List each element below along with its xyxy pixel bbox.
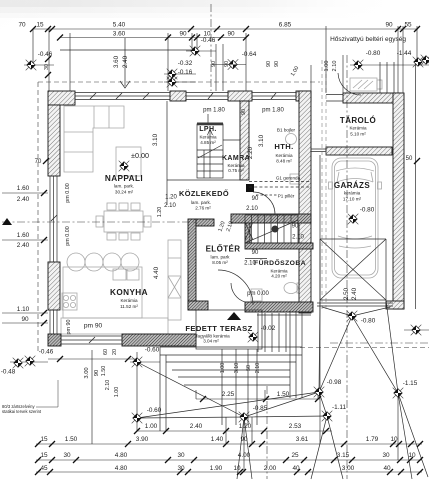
svg-text:G1 gerenda: G1 gerenda — [276, 176, 301, 181]
svg-text:8.05 m²: 8.05 m² — [212, 260, 228, 265]
svg-text:HTH.: HTH. — [274, 142, 293, 151]
svg-text:2.40: 2.40 — [190, 423, 203, 430]
svg-text:GARÁZS: GARÁZS — [334, 181, 370, 190]
svg-text:TÁROLÓ: TÁROLÓ — [340, 116, 376, 125]
svg-text:2.40: 2.40 — [17, 242, 30, 249]
svg-text:40: 40 — [292, 465, 300, 472]
svg-text:2.10: 2.10 — [105, 380, 111, 391]
svg-text:4.20 m²: 4.20 m² — [271, 274, 287, 279]
svg-text:1.90: 1.90 — [210, 465, 223, 472]
svg-text:-0.46: -0.46 — [201, 37, 216, 44]
svg-text:FEDETT TERASZ: FEDETT TERASZ — [185, 324, 252, 333]
svg-text:2.10: 2.10 — [292, 235, 304, 241]
svg-text:3.00: 3.00 — [342, 465, 355, 472]
svg-text:6.85: 6.85 — [279, 22, 292, 29]
svg-text:15: 15 — [36, 22, 44, 29]
svg-text:Kerámia: Kerámia — [120, 298, 138, 303]
svg-text:25: 25 — [291, 452, 299, 459]
svg-text:1.00: 1.00 — [220, 363, 226, 374]
svg-text:-0.02: -0.02 — [261, 325, 276, 332]
svg-text:90: 90 — [241, 109, 247, 115]
svg-text:2.00: 2.00 — [264, 465, 277, 472]
svg-text:90: 90 — [240, 436, 248, 443]
svg-text:70: 70 — [35, 159, 42, 165]
svg-text:4.85 m²: 4.85 m² — [200, 140, 216, 145]
svg-text:-0.64: -0.64 — [242, 51, 257, 58]
svg-text:1.50: 1.50 — [277, 391, 290, 398]
svg-text:2.76 m²: 2.76 m² — [195, 206, 211, 211]
svg-text:kerámia: kerámia — [344, 191, 361, 196]
svg-text:-0.60: -0.60 — [145, 347, 160, 354]
svg-text:pm 0.00: pm 0.00 — [247, 291, 269, 297]
svg-text:55: 55 — [404, 22, 412, 29]
svg-text:-0.60: -0.60 — [147, 407, 162, 414]
svg-text:10: 10 — [390, 436, 398, 443]
svg-text:3.04 m²: 3.04 m² — [203, 339, 219, 344]
svg-text:B1 bojler: B1 bojler — [277, 128, 296, 133]
svg-text:-1.11: -1.11 — [332, 404, 347, 411]
svg-text:90: 90 — [211, 61, 217, 67]
svg-text:2.10: 2.10 — [164, 203, 176, 209]
svg-text:1.20: 1.20 — [239, 423, 252, 430]
svg-text:1.20: 1.20 — [165, 195, 177, 201]
svg-text:pm 90: pm 90 — [84, 323, 103, 330]
svg-text:statikai tervek szerint: statikai tervek szerint — [2, 409, 42, 414]
svg-text:90: 90 — [266, 61, 272, 67]
svg-text:-0.98: -0.98 — [327, 379, 342, 386]
svg-text:1.00: 1.00 — [114, 387, 120, 398]
svg-text:Kerámia: Kerámia — [349, 126, 367, 131]
svg-text:2.50: 2.50 — [343, 287, 350, 300]
svg-text:pm 0.00: pm 0.00 — [65, 226, 71, 245]
svg-text:pm 1.80: pm 1.80 — [262, 108, 284, 114]
svg-text:17.10 m²: 17.10 m² — [343, 197, 362, 202]
svg-text:-0.80: -0.80 — [361, 318, 376, 325]
svg-text:1.20: 1.20 — [157, 207, 163, 218]
svg-text:3.10: 3.10 — [152, 133, 159, 146]
svg-text:11.52 m²: 11.52 m² — [120, 304, 138, 309]
svg-text:3.60: 3.60 — [113, 31, 126, 38]
svg-text:3.61: 3.61 — [296, 436, 309, 443]
svg-text:4.80: 4.80 — [115, 452, 128, 459]
svg-text:lam. park: lam. park — [211, 255, 231, 260]
svg-text:NAPPALI: NAPPALI — [105, 174, 143, 183]
svg-text:FÜRDŐSZOBA: FÜRDŐSZOBA — [254, 258, 306, 267]
svg-text:1.00: 1.00 — [145, 423, 158, 430]
svg-text:15: 15 — [40, 452, 48, 459]
svg-text:Kerámia: Kerámia — [275, 153, 293, 158]
svg-text:10: 10 — [233, 465, 241, 472]
svg-text:-0.46: -0.46 — [38, 51, 53, 58]
svg-text:40: 40 — [383, 465, 391, 472]
svg-text:±0.00: ±0.00 — [131, 151, 149, 160]
svg-text:1.50: 1.50 — [65, 436, 78, 443]
svg-text:pm 90: pm 90 — [66, 320, 72, 335]
svg-text:lam. park.: lam. park. — [114, 184, 134, 189]
svg-text:5.40: 5.40 — [113, 22, 126, 29]
svg-text:2.10: 2.10 — [332, 61, 338, 72]
svg-text:30: 30 — [177, 452, 185, 459]
svg-text:90: 90 — [252, 250, 259, 256]
svg-text:pm 1.80: pm 1.80 — [203, 108, 225, 114]
svg-text:Kerámia: Kerámia — [199, 135, 217, 140]
svg-text:2.20: 2.20 — [247, 146, 254, 159]
svg-text:1.60: 1.60 — [17, 185, 30, 192]
svg-text:1.40: 1.40 — [211, 436, 224, 443]
svg-text:50: 50 — [406, 156, 413, 162]
svg-text:4.00: 4.00 — [238, 452, 251, 459]
svg-text:90: 90 — [227, 31, 235, 38]
svg-text:90: 90 — [292, 224, 299, 230]
svg-text:pm 0.00: pm 0.00 — [65, 183, 71, 202]
svg-text:2.10: 2.10 — [244, 261, 256, 267]
svg-text:2.25: 2.25 — [222, 391, 235, 398]
svg-text:P1 pillér: P1 pillér — [278, 194, 295, 199]
svg-text:1.10: 1.10 — [17, 306, 30, 313]
svg-text:60: 60 — [103, 349, 109, 355]
svg-text:3.15: 3.15 — [337, 452, 350, 459]
svg-text:-1.44: -1.44 — [397, 50, 412, 57]
svg-text:3.10: 3.10 — [234, 363, 240, 374]
svg-text:90: 90 — [252, 196, 259, 202]
svg-text:30: 30 — [63, 452, 71, 459]
svg-text:-1.15: -1.15 — [403, 380, 418, 387]
svg-text:-0.80: -0.80 — [366, 50, 381, 57]
svg-text:ELŐTÉR: ELŐTÉR — [206, 245, 241, 254]
svg-text:30.24 m²: 30.24 m² — [115, 190, 134, 195]
svg-text:30: 30 — [44, 64, 50, 70]
svg-text:LPH.: LPH. — [199, 126, 217, 133]
svg-text:-0.46: -0.46 — [39, 349, 54, 356]
svg-text:30: 30 — [382, 452, 390, 459]
svg-text:-0.48: -0.48 — [1, 369, 16, 376]
svg-text:-0.80: -0.80 — [360, 207, 375, 214]
svg-text:1.00: 1.00 — [324, 61, 330, 72]
svg-text:3.60: 3.60 — [113, 55, 120, 68]
svg-text:KÖZLEKEDŐ: KÖZLEKEDŐ — [179, 189, 229, 198]
svg-text:3.90: 3.90 — [136, 436, 149, 443]
svg-text:-0.85: -0.85 — [253, 405, 268, 412]
svg-text:70: 70 — [18, 22, 26, 29]
svg-text:-0.32: -0.32 — [178, 60, 193, 67]
svg-text:lam. park.: lam. park. — [191, 200, 211, 205]
svg-text:90: 90 — [385, 22, 393, 29]
svg-text:2.40: 2.40 — [122, 55, 129, 68]
svg-text:10: 10 — [408, 452, 416, 459]
svg-text:0.75 m²: 0.75 m² — [228, 168, 244, 173]
svg-text:20: 20 — [112, 349, 118, 355]
svg-text:2.10: 2.10 — [246, 206, 258, 212]
svg-text:2.40: 2.40 — [17, 196, 30, 203]
svg-text:5.10 m²: 5.10 m² — [350, 132, 366, 137]
svg-text:3.00: 3.00 — [84, 367, 90, 378]
svg-text:90: 90 — [179, 31, 187, 38]
svg-text:-0.16: -0.16 — [178, 69, 193, 76]
svg-text:KONYHA: KONYHA — [110, 288, 148, 297]
svg-text:2.10: 2.10 — [255, 363, 261, 374]
svg-text:90: 90 — [21, 316, 29, 323]
svg-text:4.40: 4.40 — [153, 266, 160, 279]
svg-text:15: 15 — [40, 436, 48, 443]
svg-text:1.60: 1.60 — [17, 232, 30, 239]
svg-text:90: 90 — [274, 61, 280, 67]
svg-text:50: 50 — [246, 365, 252, 371]
svg-text:8.48 m²: 8.48 m² — [276, 159, 292, 164]
svg-text:4.80: 4.80 — [115, 465, 128, 472]
svg-text:3.10: 3.10 — [258, 134, 265, 147]
svg-text:1.79: 1.79 — [366, 436, 379, 443]
svg-text:Hőszivattyú beltéri egység: Hőszivattyú beltéri egység — [330, 36, 406, 43]
svg-text:90: 90 — [224, 61, 230, 67]
svg-text:45: 45 — [40, 465, 48, 472]
svg-text:90: 90 — [94, 370, 100, 376]
svg-text:30: 30 — [177, 465, 185, 472]
svg-text:2.53: 2.53 — [289, 423, 302, 430]
svg-text:2.40: 2.40 — [351, 287, 358, 300]
svg-text:KAMRA: KAMRA — [222, 155, 250, 162]
svg-text:1.50: 1.50 — [101, 366, 107, 377]
